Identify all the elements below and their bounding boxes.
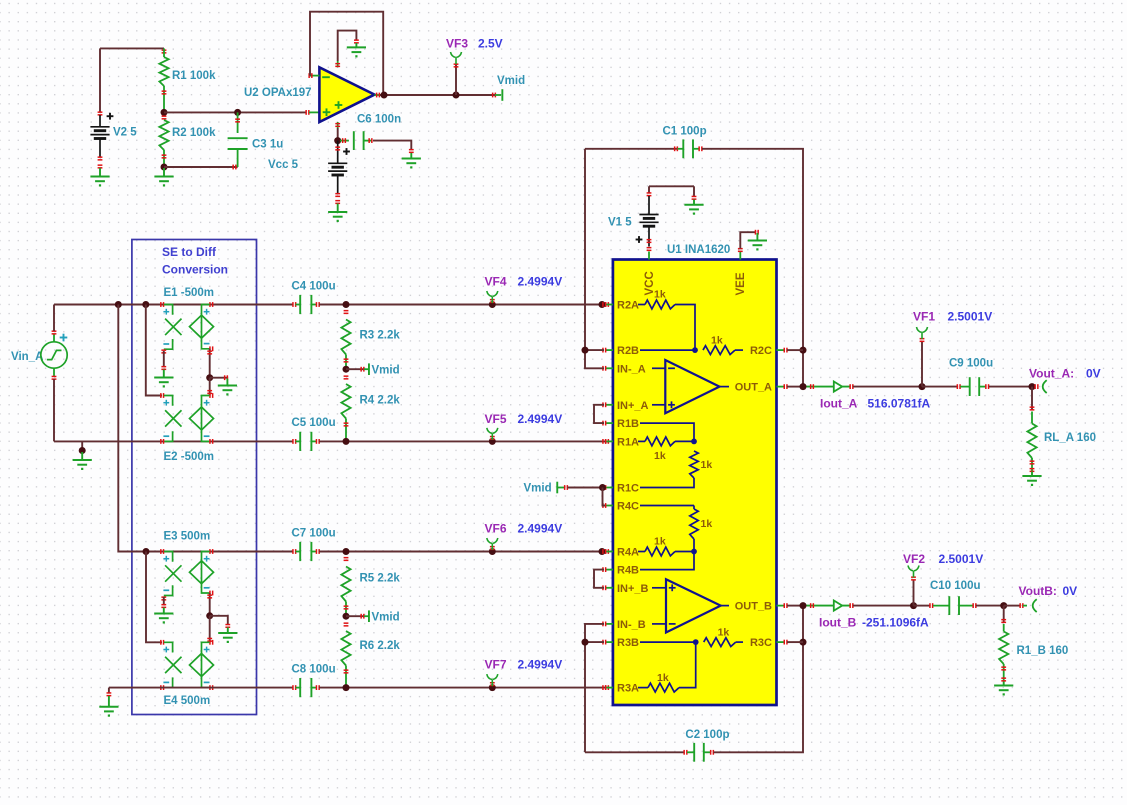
ground above op-amp bbox=[347, 46, 366, 48]
wire V1 top to ground bbox=[693, 186, 695, 196]
svg-text:U1 INA1620: U1 INA1620 bbox=[667, 244, 730, 256]
resistor RL_A 160 bbox=[1031, 387, 1033, 410]
op-amp A bbox=[665, 360, 719, 413]
svg-text:R4 2.2k: R4 2.2k bbox=[360, 395, 401, 407]
internal wire IN+_A bbox=[652, 404, 665, 406]
node junction at R2A pin bbox=[599, 301, 606, 308]
svg-text:R1C: R1C bbox=[617, 483, 639, 495]
resistor R1_B 160 bbox=[1003, 606, 1005, 623]
node junction R3C bbox=[800, 639, 807, 646]
wire mid node to ground (E3/E4) bbox=[210, 616, 228, 625]
svg-text:IN+_B: IN+_B bbox=[617, 583, 649, 595]
pin IN-_B stub bbox=[606, 623, 613, 625]
svg-text:Iout_A: Iout_A bbox=[820, 397, 858, 411]
svg-text:Vcc 5: Vcc 5 bbox=[268, 159, 299, 171]
pin R1A stub bbox=[606, 440, 613, 442]
internal resistor R1 1k (R1A) bbox=[638, 440, 645, 442]
pin R2A stub bbox=[606, 304, 613, 306]
wire R1C node down to R4C bbox=[603, 488, 606, 506]
wire E3 diamond- to mid node bbox=[209, 593, 211, 616]
pin R4C stub bbox=[606, 505, 613, 507]
svg-text:R3B: R3B bbox=[617, 637, 639, 649]
ground above U1 (V1) bbox=[684, 204, 703, 206]
svg-text:Vmid: Vmid bbox=[372, 612, 400, 624]
voltage source Vcc 5 battery bbox=[337, 141, 339, 164]
op-amp U2 IN- pin stub bbox=[310, 75, 319, 77]
ground below R2 bbox=[163, 168, 165, 176]
controlled source E4 500m control side bbox=[160, 640, 162, 645]
ammeter Iout_B bbox=[807, 605, 851, 607]
wire row B1 (C7 to R4A) bbox=[319, 551, 609, 553]
internal resistor R2 1k (R2C) bbox=[703, 346, 735, 355]
svg-text:R3C: R3C bbox=[750, 637, 772, 649]
node junction C4/R3 bbox=[343, 301, 350, 308]
node junction C7/R5 bbox=[343, 548, 350, 555]
wire row A2 (C5 to R1A) bbox=[319, 440, 609, 442]
svg-text:R4A: R4A bbox=[617, 547, 639, 559]
svg-text:Vmid: Vmid bbox=[524, 483, 552, 495]
svg-text:-251.1096fA: -251.1096fA bbox=[862, 616, 929, 630]
pin IN+_A stub bbox=[606, 404, 613, 406]
ammeter Iout_A bbox=[807, 386, 851, 388]
svg-text:1k: 1k bbox=[657, 672, 669, 684]
wire top row E1 bbox=[54, 304, 294, 306]
internal wire OUT_A bbox=[720, 386, 730, 388]
port Vmid tap A bbox=[346, 368, 364, 370]
capacitor C2 100p bbox=[585, 751, 684, 753]
wire mid node to ground bbox=[210, 377, 228, 379]
ground below Vcc battery bbox=[328, 211, 347, 213]
IC U1 INA1620 body bbox=[613, 260, 777, 706]
pin IN-_A stub bbox=[606, 367, 613, 369]
resistor R3 2.2k bbox=[344, 310, 349, 312]
internal node R4A junction bbox=[691, 549, 697, 555]
controlled source E3 500m control side bbox=[160, 549, 162, 554]
svg-text:E1 -500m: E1 -500m bbox=[164, 287, 215, 299]
svg-text:E4 500m: E4 500m bbox=[164, 695, 211, 707]
svg-text:0V: 0V bbox=[1063, 584, 1078, 598]
svg-text:R2 100k: R2 100k bbox=[172, 127, 216, 139]
wire V2+ to R1 top bbox=[100, 47, 164, 49]
internal resistor R2 1k (R2A) bbox=[638, 304, 645, 306]
internal node R3B junction bbox=[693, 639, 699, 645]
pin VEE stub bbox=[739, 252, 741, 260]
svg-text:R4B: R4B bbox=[617, 565, 639, 577]
svg-text:C4 100u: C4 100u bbox=[292, 281, 336, 293]
pin R3A stub bbox=[606, 687, 613, 689]
node junction op-amp V+ / V1b / C6 bbox=[334, 137, 341, 144]
node junction VF1 bbox=[919, 383, 926, 390]
wire IN+_A / R1B bracket bbox=[594, 405, 604, 423]
node junction top row to vert2 bbox=[142, 301, 149, 308]
controlled source E2 -500m diamond side bbox=[209, 393, 211, 398]
capacitor C9 100u bbox=[922, 386, 957, 388]
wire E3 control- to ground bbox=[161, 596, 166, 598]
svg-text:Vmid: Vmid bbox=[372, 365, 400, 377]
wire OUT_A to node bbox=[787, 386, 803, 388]
svg-text:2.5001V: 2.5001V bbox=[948, 310, 993, 324]
voltage source V1 5 bbox=[649, 185, 694, 187]
svg-text:1k: 1k bbox=[718, 627, 730, 639]
svg-text:V2 5: V2 5 bbox=[113, 127, 137, 139]
node junction R1/R2 bbox=[161, 109, 168, 116]
svg-text:C2 100p: C2 100p bbox=[685, 729, 729, 741]
ground E1/E2 mid bbox=[218, 385, 237, 387]
ground bottom left bbox=[99, 706, 118, 708]
resistor R4 2.2k bbox=[344, 375, 349, 377]
svg-text:C5 100u: C5 100u bbox=[292, 417, 336, 429]
port Vmid output bbox=[492, 93, 494, 98]
internal resistor R3 1k (R3C) bbox=[704, 638, 736, 647]
capacitor C10 100u bbox=[914, 605, 930, 607]
node junction R2B bracket bbox=[582, 347, 589, 354]
internal wire R4C + vertical resistor 1k bbox=[640, 505, 694, 507]
wire R2C pin to vertical bbox=[787, 349, 803, 351]
svg-text:OUT_A: OUT_A bbox=[735, 382, 772, 394]
node junction R3B bracket bbox=[582, 639, 589, 646]
svg-text:VF3: VF3 bbox=[446, 37, 468, 51]
wire E4 row to ground bbox=[108, 688, 110, 693]
node junction OUT_A bbox=[800, 383, 807, 390]
node junction Vout_A bbox=[1029, 383, 1036, 390]
svg-text:R1 100k: R1 100k bbox=[172, 70, 216, 82]
svg-text:1k: 1k bbox=[654, 536, 666, 548]
op-amp U2 V+ pin stub bbox=[337, 122, 339, 128]
test point VF7 bbox=[489, 684, 496, 691]
svg-text:Conversion: Conversion bbox=[162, 263, 228, 277]
svg-text:C10 100u: C10 100u bbox=[930, 580, 981, 592]
svg-text:IN-_B: IN-_B bbox=[617, 619, 646, 631]
controlled source E3 500m diamond side bbox=[209, 549, 211, 554]
svg-text:1k: 1k bbox=[711, 335, 723, 347]
controlled source E2 -500m control side bbox=[160, 393, 162, 398]
svg-text:VF2: VF2 bbox=[903, 552, 925, 566]
svg-text:U2 OPAx197: U2 OPAx197 bbox=[244, 87, 312, 99]
wire vert2 down to E2 control bbox=[146, 305, 162, 396]
op-amp U2 output wire to Vmid bbox=[375, 94, 381, 96]
pin R4A stub bbox=[606, 551, 613, 553]
svg-text:Vin_A: Vin_A bbox=[11, 351, 43, 363]
svg-text:VoutB:: VoutB: bbox=[1019, 584, 1057, 598]
svg-text:RL_A 160: RL_A 160 bbox=[1044, 432, 1096, 444]
svg-text:IN+_A: IN+_A bbox=[617, 400, 649, 412]
node junction at R4A pin bbox=[599, 548, 606, 555]
node junction top row to vert1 bbox=[115, 301, 122, 308]
pin R1B stub bbox=[606, 422, 613, 424]
capacitor C3 1u bbox=[234, 109, 241, 116]
svg-text:VEE: VEE bbox=[735, 272, 747, 295]
internal wire R2A to R2B junction bbox=[675, 305, 695, 351]
wire C10 to VoutB bbox=[976, 605, 1004, 607]
wire ammeter to VF1/C9 node bbox=[853, 386, 922, 388]
test point VF2 bbox=[913, 580, 915, 606]
ground tap below bottom row bbox=[81, 441, 83, 450]
ground below RL_A bbox=[1031, 472, 1033, 476]
resistor R1 100k bbox=[163, 48, 165, 57]
node junction E1/E2 mid bbox=[206, 374, 213, 381]
pin VCC stub bbox=[648, 252, 650, 260]
internal wire OUT_B bbox=[721, 605, 729, 607]
node junction R2C bbox=[800, 347, 807, 354]
svg-text:IN-_A: IN-_A bbox=[617, 363, 646, 375]
controlled source E1 -500m control side bbox=[160, 302, 162, 307]
ground right of C6 bbox=[402, 158, 421, 160]
wire vert1 down to E3 row bbox=[118, 305, 146, 552]
ground E3/E4 mid bbox=[218, 632, 237, 634]
svg-text:C8 100u: C8 100u bbox=[292, 664, 336, 676]
capacitor C5 100u bbox=[292, 439, 294, 444]
svg-text:1k: 1k bbox=[654, 289, 666, 301]
capacitor C6 100n bbox=[340, 140, 349, 142]
wire VEE to ground bbox=[740, 232, 755, 248]
svg-text:R4C: R4C bbox=[617, 501, 639, 513]
capacitor C1 100p bbox=[585, 148, 678, 150]
wire row A1 (C4 to R2A) bbox=[319, 304, 609, 306]
wire bottom row E2 bbox=[54, 440, 294, 442]
node junction VoutB bbox=[1000, 602, 1007, 609]
wire row B2 (C8 to R3A) bbox=[319, 687, 609, 689]
controlled source E4 500m diamond side bbox=[209, 640, 211, 645]
test point VF4 bbox=[489, 301, 496, 308]
wire E1 diamond- to mid node bbox=[209, 349, 211, 378]
ground VEE bbox=[748, 240, 767, 242]
resistor R2 100k bbox=[162, 115, 167, 117]
svg-text:R1_B 160: R1_B 160 bbox=[1017, 645, 1069, 657]
wire feedback output to IN- bbox=[310, 12, 383, 95]
internal wire R1B bbox=[640, 423, 694, 441]
voltage source V2 5 bbox=[98, 111, 103, 113]
svg-text:1k: 1k bbox=[654, 450, 666, 462]
test point VF6 bbox=[489, 548, 496, 555]
svg-text:2.5001V: 2.5001V bbox=[939, 552, 984, 566]
svg-text:C1 100p: C1 100p bbox=[663, 126, 707, 138]
wire E4 bottom row bbox=[109, 687, 294, 689]
wire R4B / IN+_B bracket bbox=[594, 570, 604, 588]
node junction R2 bottom bbox=[161, 164, 168, 171]
op-amp U2 OPAx197 bbox=[319, 67, 374, 122]
pin OUT_B stub bbox=[777, 605, 785, 607]
internal node R2B junction bbox=[692, 347, 698, 353]
capacitor C8 100u bbox=[292, 685, 294, 690]
wire mid node to op-amp IN+ bbox=[164, 111, 306, 113]
wire R2 bottom to C3 bottom bbox=[164, 166, 238, 168]
svg-text:E2 -500m: E2 -500m bbox=[164, 451, 215, 463]
svg-text:2.5V: 2.5V bbox=[478, 37, 503, 51]
node junction OUT_B bbox=[800, 602, 807, 609]
port Vout_A bbox=[1034, 384, 1036, 389]
svg-text:R1B: R1B bbox=[617, 418, 639, 430]
wire R2B/IN-A bracket from C1 bbox=[585, 149, 604, 368]
svg-text:1k: 1k bbox=[701, 459, 713, 471]
svg-text:2.4994V: 2.4994V bbox=[518, 412, 563, 426]
svg-text:1k: 1k bbox=[701, 518, 713, 530]
node junction E3/E4 mid bbox=[206, 612, 213, 619]
test point VF3 bbox=[453, 92, 460, 99]
ground E1 control bbox=[154, 377, 173, 379]
resistor R6 2.2k bbox=[344, 622, 349, 624]
svg-text:R2B: R2B bbox=[617, 345, 639, 357]
node junction VF2 bbox=[910, 602, 917, 609]
svg-text:VF1: VF1 bbox=[913, 310, 935, 324]
wire C2 right to R3C/OUT_B bbox=[714, 606, 804, 753]
svg-text:R3 2.2k: R3 2.2k bbox=[360, 330, 401, 342]
svg-text:OUT_B: OUT_B bbox=[735, 601, 772, 613]
test point VF5 bbox=[489, 438, 496, 445]
op-amp B bbox=[666, 579, 721, 632]
internal node R1A junction bbox=[691, 439, 697, 445]
internal wire R3B bbox=[640, 641, 696, 643]
svg-text:R2A: R2A bbox=[617, 300, 639, 312]
svg-text:2.4994V: 2.4994V bbox=[518, 522, 563, 536]
wire E3-row feed down to E4 control bbox=[146, 552, 162, 643]
node junction C8/R6 bbox=[343, 684, 350, 691]
svg-text:VF5: VF5 bbox=[485, 412, 507, 426]
node junction C5/R4 bbox=[343, 438, 350, 445]
internal resistor R4 1k (R4A) bbox=[638, 551, 645, 553]
svg-text:R2C: R2C bbox=[750, 345, 772, 357]
node junction R5/R6 Vmid tap B bbox=[343, 613, 350, 620]
node junction E3 row to E4 feed bbox=[143, 548, 150, 555]
svg-text:R1A: R1A bbox=[617, 436, 639, 448]
wire C1 right to R2C/OUT_A bbox=[702, 149, 803, 387]
svg-text:VF6: VF6 bbox=[485, 522, 507, 536]
svg-text:R3A: R3A bbox=[617, 683, 639, 695]
pin OUT_A stub bbox=[777, 386, 785, 388]
svg-text:E3 500m: E3 500m bbox=[164, 531, 211, 543]
svg-text:2.4994V: 2.4994V bbox=[518, 275, 563, 289]
pin R3C stub bbox=[777, 641, 785, 643]
ground below V2 bbox=[90, 176, 109, 178]
wire E3 top row bbox=[118, 551, 293, 553]
pin R3B stub bbox=[606, 641, 613, 643]
svg-text:VF4: VF4 bbox=[485, 275, 507, 289]
pin IN+_B stub bbox=[606, 587, 613, 589]
svg-text:516.0781fA: 516.0781fA bbox=[868, 397, 931, 411]
wire V2- to ground bbox=[99, 168, 101, 176]
internal wire IN-_B bbox=[652, 623, 666, 625]
pin R2C stub bbox=[777, 349, 785, 351]
wire C6 to ground bbox=[373, 141, 411, 149]
op-amp U2 V- pin to ground loop bbox=[337, 61, 339, 67]
wire mid node to E2 diamond+ bbox=[209, 378, 211, 396]
svg-text:VF7: VF7 bbox=[485, 658, 507, 672]
svg-text:2.4994V: 2.4994V bbox=[518, 658, 563, 672]
svg-text:V1 5: V1 5 bbox=[608, 217, 632, 229]
internal wire IN-_A bbox=[652, 367, 665, 369]
wire Vmid to R1C bbox=[568, 487, 603, 489]
wire R3C pin to vertical bbox=[787, 641, 803, 643]
svg-text:Iout_B: Iout_B bbox=[819, 616, 857, 630]
ground below R1_B bbox=[1003, 682, 1005, 686]
controlled source E1 -500m diamond side bbox=[209, 302, 211, 307]
port VoutB bbox=[1004, 605, 1020, 607]
svg-text:R5 2.2k: R5 2.2k bbox=[360, 573, 401, 585]
node junction R1C bbox=[599, 484, 606, 491]
svg-text:SE to Diff: SE to Diff bbox=[162, 245, 217, 259]
port Vmid tap B bbox=[346, 615, 364, 617]
wire IN-B/R3B bracket to C2 bbox=[585, 624, 604, 752]
wire mid node to E4 diamond+ bbox=[209, 616, 211, 643]
svg-text:C7 100u: C7 100u bbox=[292, 528, 336, 540]
internal resistor R1 1k vertical bbox=[690, 451, 698, 478]
internal resistor R3 1k (R3A) bbox=[638, 687, 648, 689]
ground E3 control bbox=[154, 613, 173, 615]
svg-text:Vmid: Vmid bbox=[497, 75, 525, 87]
wire ammeter to VF2/C10 node bbox=[853, 605, 914, 607]
pin R1C stub bbox=[606, 487, 613, 489]
svg-text:C3 1u: C3 1u bbox=[252, 139, 283, 151]
internal wire IN+_B bbox=[652, 587, 666, 589]
SE to Diff Conversion box bbox=[132, 240, 257, 715]
wire OUT_B to node bbox=[787, 605, 803, 607]
svg-text:Vout_A:: Vout_A: bbox=[1029, 367, 1074, 381]
resistor R5 2.2k bbox=[344, 557, 349, 559]
svg-text:R6 2.2k: R6 2.2k bbox=[360, 640, 401, 652]
wire E1 control- to ground bbox=[161, 349, 166, 351]
svg-text:C6 100n: C6 100n bbox=[357, 114, 401, 126]
svg-text:C9 100u: C9 100u bbox=[949, 358, 993, 370]
capacitor C7 100u bbox=[292, 549, 294, 554]
pin R2B stub bbox=[606, 349, 613, 351]
wire C9 to Vout_A bbox=[989, 386, 1032, 388]
node junction R3/R4 Vmid tap A bbox=[343, 366, 350, 373]
internal wire R4A junction to R4B bbox=[640, 552, 694, 570]
svg-text:0V: 0V bbox=[1086, 367, 1101, 381]
pin R4B stub bbox=[606, 569, 613, 571]
test point VF1 bbox=[921, 342, 923, 387]
internal wire R2B bbox=[640, 349, 695, 351]
capacitor C4 100u bbox=[292, 302, 294, 307]
